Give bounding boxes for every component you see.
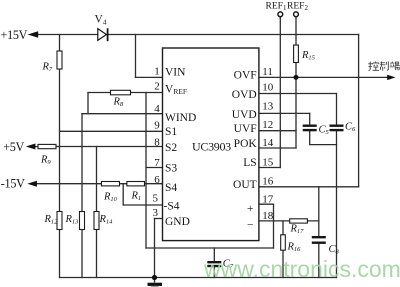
R14 value label <box>99 214 114 226</box>
wire VREF to S3/S4 long vertical <box>145 93 147 249</box>
R17 value label <box>290 223 305 235</box>
svg-text:12: 12 <box>262 119 273 131</box>
resistor R1 <box>127 182 145 186</box>
pin label GND <box>165 216 190 228</box>
R12 value label <box>44 214 59 226</box>
wire pin18 with R17 to C8 node <box>259 220 319 222</box>
pin label + <box>247 203 254 215</box>
svg-text:6: 6 <box>154 174 160 186</box>
pin 10 number <box>262 82 274 94</box>
wire pin11 OVF to control arrow <box>259 76 388 78</box>
resistor R13 <box>80 212 85 230</box>
pin 7 number <box>154 157 160 169</box>
svg-text:7: 7 <box>154 157 160 169</box>
pin label LS <box>243 157 256 169</box>
node REF2 terminal <box>294 12 299 17</box>
pin 13 number <box>262 101 274 113</box>
svg-text:R8: R8 <box>113 97 124 109</box>
wire pin10 OVD <box>259 93 337 95</box>
svg-text:+15V: +15V <box>1 28 28 42</box>
svg-text:R13: R13 <box>65 214 80 226</box>
wire -15V row R10 R1 to pin6 S4 <box>35 183 163 185</box>
svg-text:S4: S4 <box>165 182 177 194</box>
pin label OVD <box>232 89 257 101</box>
wire pin15 LS <box>259 167 280 169</box>
pin 9 number <box>154 120 160 132</box>
svg-text:R9: R9 <box>40 155 51 167</box>
wire pin13 UVD <box>259 112 310 114</box>
pin 16 number <box>262 176 274 188</box>
diode V4 value label <box>95 14 107 27</box>
svg-text:10: 10 <box>262 82 274 94</box>
wire pin1 VIN <box>136 76 163 78</box>
pin 8 number <box>154 136 160 148</box>
svg-text:OVF: OVF <box>234 69 257 81</box>
svg-text:R15: R15 <box>301 50 316 62</box>
wire C7 stem top <box>213 248 215 261</box>
svg-text:C5: C5 <box>319 124 330 136</box>
resistor R16 <box>281 235 286 250</box>
wire R10/R1 node drop <box>122 184 124 205</box>
pin label UVD <box>232 109 257 121</box>
R9 value label <box>40 155 51 167</box>
svg-text:WIND: WIND <box>165 112 196 124</box>
resistor R12 <box>57 212 62 230</box>
wire C8 bottom to ground rail <box>318 244 320 278</box>
svg-text:-15V: -15V <box>1 177 25 191</box>
svg-text:2: 2 <box>154 81 160 93</box>
svg-text:REF2: REF2 <box>287 2 308 13</box>
wire +15V top rail <box>36 34 359 36</box>
op-amp U1 UC3903 IC body <box>163 48 259 241</box>
svg-text:OUT: OUT <box>233 179 257 191</box>
wire OUT drop to C8 <box>318 187 320 236</box>
pin label OVF <box>234 69 257 81</box>
pin 6 number <box>154 174 160 186</box>
pin label S4 <box>165 182 177 194</box>
power arrow +15V <box>28 31 39 38</box>
pin 14 number <box>262 137 274 149</box>
power arrow -15V <box>27 181 37 187</box>
svg-text:13: 13 <box>262 101 274 113</box>
pin label OUT <box>233 179 257 191</box>
wire REF1 vertical to LS <box>279 17 281 168</box>
resistor R17 <box>290 219 308 223</box>
wire pin7 S3 <box>146 167 163 169</box>
node label 控制端 (control terminal, drawn strokes) <box>368 61 400 71</box>
wire pin5 -S4 <box>123 204 162 206</box>
pin label WIND <box>165 112 196 124</box>
wire R7/R12 divider vertical <box>59 35 61 278</box>
R7 value label <box>42 62 53 74</box>
wire pin14 POK <box>259 147 296 149</box>
wire VREF drop to WIND <box>87 93 89 114</box>
wire pin12 UVF <box>259 130 296 132</box>
watermark www.cntronics.com <box>203 256 400 282</box>
pin label -S4 <box>164 201 180 213</box>
wire under-IC return y248 <box>146 247 274 249</box>
wire pin16 OUT <box>259 186 359 188</box>
pin label UVF <box>234 123 257 135</box>
svg-text:R1: R1 <box>131 191 142 203</box>
pin label VREF <box>165 84 187 97</box>
control output arrow <box>387 75 395 80</box>
resistor R7 <box>57 51 62 69</box>
capacitor C6 <box>330 126 344 130</box>
svg-text:S2: S2 <box>165 142 177 154</box>
pin 1 number <box>154 66 160 78</box>
svg-text:5: 5 <box>153 193 159 205</box>
pin label VIN <box>165 67 186 79</box>
node junction ground rail <box>152 275 157 280</box>
svg-text:C6: C6 <box>345 121 356 133</box>
svg-text:18: 18 <box>262 210 274 222</box>
svg-text:11: 11 <box>262 66 273 78</box>
svg-text:+5V: +5V <box>3 140 24 154</box>
C6 value label <box>345 121 356 133</box>
svg-text:C8: C8 <box>329 244 340 256</box>
svg-text:V4: V4 <box>95 14 107 27</box>
node junction REF2/OVF <box>294 75 299 80</box>
pin label S1 <box>165 126 177 138</box>
svg-text:REF1: REF1 <box>266 2 287 13</box>
R16 value label <box>287 242 302 254</box>
REF2 label <box>287 2 308 13</box>
resistor R14 <box>94 212 99 230</box>
svg-text:R16: R16 <box>287 242 302 254</box>
svg-text:16: 16 <box>262 176 274 188</box>
svg-text:LS: LS <box>243 157 256 169</box>
wire pin2 VREF with R8 <box>88 92 163 94</box>
+15V label <box>1 28 28 42</box>
wire REF2/R15 vertical to POK <box>295 17 297 148</box>
svg-text:15: 15 <box>262 157 274 169</box>
R13 value label <box>65 214 80 226</box>
svg-text:OVD: OVD <box>232 89 257 101</box>
wire +5V row to pin8 S2 <box>34 146 163 148</box>
svg-text:3: 3 <box>153 207 159 219</box>
wire OVD drop to C6 <box>336 94 338 125</box>
pin 15 number <box>262 157 274 169</box>
U1 part number UC3903 <box>192 139 231 153</box>
svg-text:+: + <box>247 203 254 215</box>
pin 18 number <box>262 210 274 222</box>
wire C6 bottom to ground rail <box>336 131 338 277</box>
svg-text:1: 1 <box>154 66 160 78</box>
resistor R8 <box>111 90 131 95</box>
pin label minus <box>247 220 254 232</box>
svg-text:14: 14 <box>262 137 274 149</box>
C8 value label <box>329 244 340 256</box>
svg-text:UC3903: UC3903 <box>192 139 231 153</box>
svg-text:R10: R10 <box>103 192 118 204</box>
C7 value label <box>223 259 234 271</box>
wire C5 bottom link <box>310 131 337 144</box>
svg-text:GND: GND <box>165 216 190 228</box>
pin 5 number <box>153 193 159 205</box>
wire pin4 WIND <box>82 113 163 115</box>
resistor R15 <box>294 45 299 63</box>
svg-text:-S4: -S4 <box>164 201 180 213</box>
node REF1 terminal <box>278 12 283 17</box>
resistor R9 <box>38 144 56 148</box>
pin 3 number <box>153 207 159 219</box>
svg-text:9: 9 <box>154 120 160 132</box>
ground <box>148 284 163 287</box>
wire UVD drop to C5 <box>309 113 311 124</box>
resistor R10 <box>101 182 119 186</box>
pin 2 number <box>154 81 160 93</box>
svg-text:8: 8 <box>154 136 160 148</box>
+5V label <box>3 140 24 154</box>
wire right vertical rail from +15V to OUT <box>358 35 360 187</box>
wire VIN drop <box>135 35 137 78</box>
wire R16 vertical <box>282 221 284 278</box>
power arrow +5V <box>26 144 36 150</box>
wire pin3 GND <box>155 218 163 220</box>
pin label POK <box>234 138 258 150</box>
wire +5V to R14 vertical <box>96 147 98 278</box>
svg-text:R7: R7 <box>42 62 53 74</box>
capacitor C7 <box>207 262 221 266</box>
svg-text:UVF: UVF <box>234 123 257 135</box>
pin 11 number <box>262 66 273 78</box>
svg-text:POK: POK <box>234 138 258 150</box>
diode V4 <box>98 28 108 41</box>
svg-text:4: 4 <box>154 103 160 115</box>
wire GND drop to ground <box>154 219 156 282</box>
wire C7 stem bottom <box>213 267 215 278</box>
svg-text:R14: R14 <box>99 214 114 226</box>
svg-text:S3: S3 <box>165 163 177 175</box>
svg-text:S1: S1 <box>165 126 177 138</box>
capacitor C8 <box>312 237 326 243</box>
R15 value label <box>301 50 316 62</box>
capacitor C5 <box>303 126 317 130</box>
wire bottom ground rail <box>60 277 337 279</box>
svg-text:R12: R12 <box>44 214 59 226</box>
pin label S2 <box>165 142 177 154</box>
wire pin17 <box>259 203 274 205</box>
svg-text:UVD: UVD <box>232 109 257 121</box>
svg-text:VIN: VIN <box>165 67 186 79</box>
pin label S3 <box>165 163 177 175</box>
-15V label <box>1 177 25 191</box>
pin 12 number <box>262 119 273 131</box>
svg-text:www.cntronics.com: www.cntronics.com <box>203 256 400 282</box>
svg-text:−: − <box>247 220 254 232</box>
R10 value label <box>103 192 118 204</box>
wire WIND to R13 vertical <box>81 114 83 278</box>
svg-text:R17: R17 <box>290 223 305 235</box>
R1 value label <box>131 191 142 203</box>
pin 4 number <box>154 103 160 115</box>
REF1 label <box>266 2 287 13</box>
C5 value label <box>319 124 330 136</box>
R8 value label <box>113 97 124 109</box>
svg-text:17: 17 <box>262 193 274 205</box>
wire pin17/18 tie vertical <box>273 204 275 248</box>
pin 17 number <box>262 193 274 205</box>
wire pin9 S1 <box>60 130 163 132</box>
